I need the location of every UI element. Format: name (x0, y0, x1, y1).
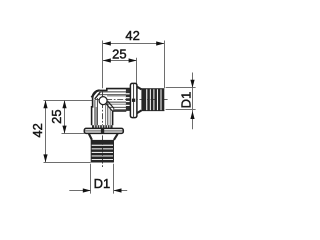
dimension line 42 (left) (45, 100, 47, 162)
arrowheads, dimension 25 left (62, 100, 66, 133)
arrowheads, dimension 25 top (103, 58, 137, 62)
svg-text:42: 42 (30, 123, 45, 137)
extension line, vertical, elbow centerline (top) (102, 41, 104, 89)
extension line, vertical, at right pipe end (164, 41, 166, 89)
svg-text:25: 25 (49, 109, 64, 123)
inner 45-degree mitre chamfer lines (105, 101, 114, 111)
extension line, vertical, bottom pipe right edge (113, 164, 115, 194)
elbow inner silhouette: bottom edge + inner corner + right edge (113, 111, 127, 125)
outer 45-degree mitre chamfer lines (91, 91, 100, 99)
svg-text:25: 25 (112, 46, 126, 61)
vertical branch body contour lines (95, 98, 110, 125)
dimension line D1 (bottom), outside segments (69, 190, 127, 192)
elbow outer silhouette: left edge with step (92, 98, 93, 126)
corner joint circle (99, 97, 107, 105)
centerline, horizontal branch axis (dash-dot) (95, 99, 168, 101)
svg-text:D1: D1 (94, 176, 111, 191)
extension line, horizontal, elbow centerline (left) (44, 100, 93, 102)
dimension line 42 (top) (103, 43, 164, 45)
taper neck, vertical branch (89, 134, 118, 140)
knurl ring, vertical branch (92, 125, 113, 128)
knurl ring, horizontal branch (126, 89, 131, 111)
arrowheads, dimension D1 right (pointing inward) (190, 80, 194, 119)
dimension line 25 (top) (103, 60, 136, 62)
collar flange, vertical branch (84, 128, 123, 133)
elbow outer silhouette: top edge with step (100, 89, 131, 91)
ribbed pipe end, vertical branch (91, 140, 114, 163)
arrowheads, dimension D1 bottom (pointing inward) (83, 188, 122, 192)
extension line, horizontal, at collar bottom edge (62, 133, 85, 135)
extension line, vertical, bottom pipe left edge (90, 164, 92, 194)
horizontal branch body contour lines (98, 92, 127, 110)
dimension line 25 (left) (64, 100, 66, 133)
elbow outer corner arc (93, 90, 100, 97)
svg-text:D1: D1 (179, 92, 194, 109)
taper neck, horizontal branch (137, 87, 142, 113)
extension line, vertical, at collar right edge (136, 58, 138, 84)
dimension line D1 (right) (192, 73, 194, 130)
svg-text:42: 42 (125, 28, 139, 43)
ribbed pipe end, horizontal branch (141, 88, 164, 111)
extension line, horizontal, at bottom pipe end (44, 162, 91, 164)
arrowheads, dimension 42 left (43, 100, 47, 162)
extension line, horizontal, at rib bottom (right D1) (166, 109, 196, 111)
extension line, horizontal, at rib top (right D1) (166, 87, 196, 89)
arrowheads, dimension 42 top (103, 41, 164, 45)
centerline, vertical branch axis (dash-dot) (102, 91, 104, 168)
collar flange, horizontal branch (130, 83, 137, 117)
